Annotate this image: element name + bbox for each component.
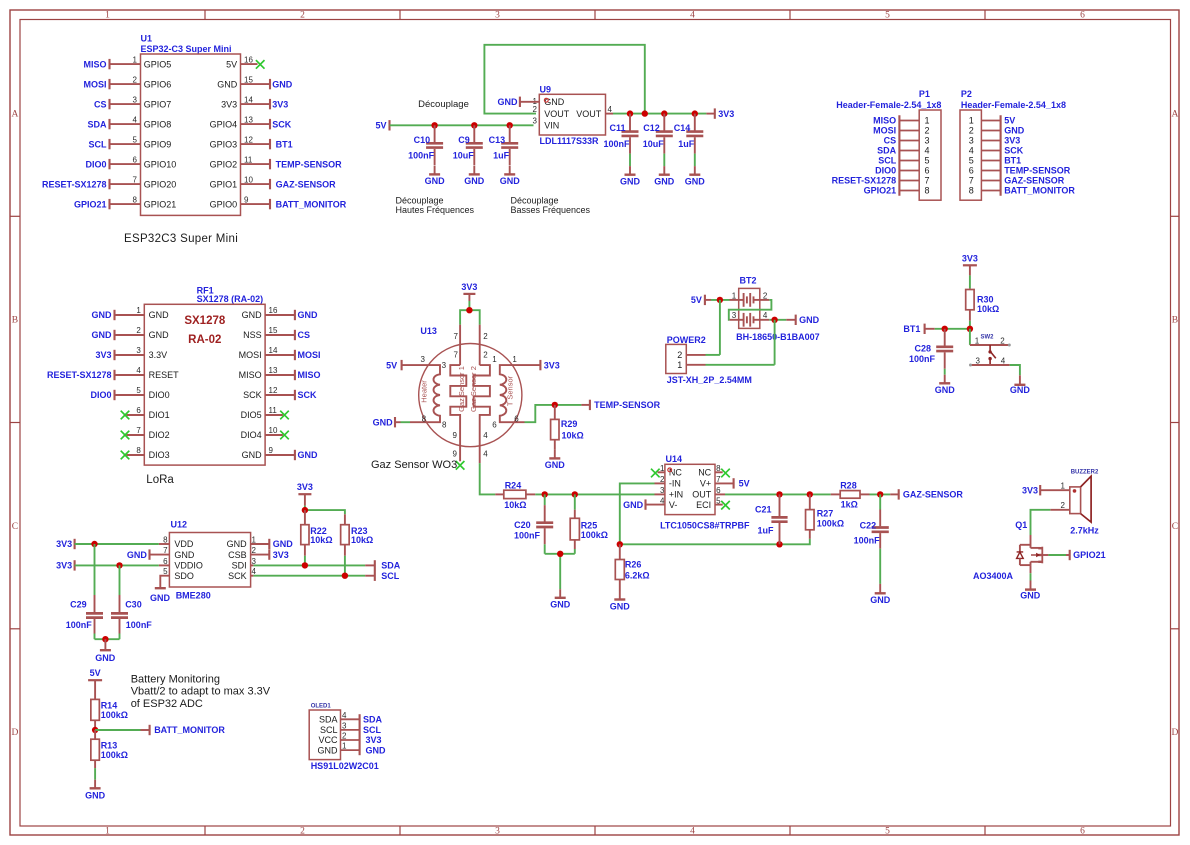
svg-text:VDDIO: VDDIO <box>174 561 203 571</box>
svg-text:GND: GND <box>464 176 485 186</box>
net label 3V3 (U13 pin 1) <box>540 360 559 370</box>
svg-text:100kΩ: 100kΩ <box>101 750 128 760</box>
svg-text:C21: C21 <box>755 505 772 515</box>
sensor U12 BME280 <box>150 520 270 601</box>
svg-text:GND: GND <box>273 539 294 549</box>
ground flag GND (C29/C30) <box>95 639 116 663</box>
svg-text:2: 2 <box>136 326 141 335</box>
svg-text:3: 3 <box>533 117 538 126</box>
svg-text:GND: GND <box>425 176 446 186</box>
svg-text:3V3: 3V3 <box>272 99 288 109</box>
svg-text:BT1: BT1 <box>276 139 293 149</box>
svg-text:Vbatt/2 to adapt to max 3.3V: Vbatt/2 to adapt to max 3.3V <box>131 686 271 698</box>
net label 5V (regulator input) <box>375 120 389 130</box>
svg-text:DIO5: DIO5 <box>241 410 262 420</box>
svg-text:6: 6 <box>1080 11 1085 21</box>
wire U9 output to 3V3 <box>613 113 706 115</box>
svg-text:R14: R14 <box>101 701 118 711</box>
svg-text:SCL: SCL <box>381 571 400 581</box>
svg-text:8: 8 <box>924 186 929 196</box>
svg-text:BUZZER2: BUZZER2 <box>1071 469 1099 475</box>
junction C9 tap <box>471 122 477 128</box>
net label CS (U1 pin 3) <box>94 99 110 109</box>
net label 3V3 (U12 pin 2) <box>269 549 288 559</box>
capacitor C12 10uF <box>643 114 675 187</box>
svg-text:U9: U9 <box>540 84 552 94</box>
svg-text:2: 2 <box>483 350 488 359</box>
svg-text:GND: GND <box>318 745 339 755</box>
svg-text:GND: GND <box>149 310 170 320</box>
svg-text:OUT: OUT <box>692 490 712 500</box>
svg-text:100nF: 100nF <box>909 354 936 364</box>
svg-text:BATT_MONITOR: BATT_MONITOR <box>1004 186 1075 196</box>
svg-text:V-: V- <box>669 500 678 510</box>
svg-text:SCK: SCK <box>298 390 318 400</box>
wire SW2 pin 4 to GND <box>1010 365 1020 375</box>
svg-text:1: 1 <box>975 336 980 345</box>
net label GND (U13 pin 8) <box>373 417 401 427</box>
wire SDA <box>253 564 365 566</box>
svg-text:+IN: +IN <box>669 490 683 500</box>
svg-text:GND: GND <box>85 791 106 801</box>
transistor Q1 AO3400A <box>973 520 1042 581</box>
svg-text:100kΩ: 100kΩ <box>817 519 844 529</box>
svg-text:BH-18650-B1BA007: BH-18650-B1BA007 <box>736 332 820 342</box>
svg-text:1uF: 1uF <box>678 139 695 149</box>
net label 3V3 (U12 VDD) <box>56 539 74 549</box>
svg-text:11: 11 <box>269 406 278 415</box>
wire BT1 node to SW2 pin 1 <box>969 329 971 345</box>
svg-text:100kΩ: 100kΩ <box>101 710 128 720</box>
svg-text:LDL1117S33R: LDL1117S33R <box>540 136 600 146</box>
svg-text:Header-Female-2.54_1x8: Header-Female-2.54_1x8 <box>836 100 941 110</box>
net label 3V3 (buzzer pin 1) <box>1022 485 1040 495</box>
svg-text:Q1: Q1 <box>1015 520 1027 530</box>
svg-text:SX1278 (RA-02): SX1278 (RA-02) <box>197 294 264 304</box>
svg-text:LTC1050CS8#TRPBF: LTC1050CS8#TRPBF <box>660 520 750 530</box>
svg-text:1: 1 <box>492 355 497 364</box>
svg-text:1: 1 <box>732 291 737 300</box>
svg-text:GND: GND <box>272 79 293 89</box>
svg-text:SCL: SCL <box>89 139 108 149</box>
svg-text:GPIO6: GPIO6 <box>144 79 172 89</box>
svg-text:3V3: 3V3 <box>366 735 382 745</box>
svg-text:GPIO2: GPIO2 <box>210 159 238 169</box>
svg-text:10kΩ: 10kΩ <box>977 304 999 314</box>
chip U1 ESP32-C3 Super Mini <box>110 34 271 216</box>
net label GND (RF1 pin 9) <box>295 450 318 460</box>
svg-text:4: 4 <box>133 115 138 124</box>
svg-text:SX1278: SX1278 <box>184 315 226 327</box>
svg-text:100nF: 100nF <box>603 139 630 149</box>
wire 3V3 to R22/R23 <box>304 506 306 511</box>
ground flag GND (R29) <box>545 450 566 470</box>
net label CS (RF1 pin 15) <box>295 330 310 340</box>
svg-text:SCK: SCK <box>1004 146 1024 156</box>
junction 5V/POWER2 <box>717 297 723 303</box>
svg-text:3: 3 <box>495 827 500 837</box>
svg-text:C29: C29 <box>70 600 87 610</box>
power flag 3V3 (pull-ups) <box>297 482 313 505</box>
svg-text:GND: GND <box>870 595 891 605</box>
svg-text:BATT_MONITOR: BATT_MONITOR <box>276 199 347 209</box>
net label GND (U9 pin 1) <box>498 97 520 107</box>
wire R30 to BT1 node <box>969 321 971 329</box>
svg-text:5V: 5V <box>691 295 702 305</box>
svg-text:MOSI: MOSI <box>873 126 896 136</box>
svg-text:8: 8 <box>442 421 447 430</box>
svg-text:1kΩ: 1kΩ <box>841 500 858 510</box>
svg-text:SCK: SCK <box>228 571 247 581</box>
net label RESET-SX1278 (U1 pin 7) <box>42 179 110 189</box>
svg-text:GND: GND <box>1004 126 1024 136</box>
svg-text:GPIO4: GPIO4 <box>210 119 238 129</box>
no-connect RF1 pin 10 <box>280 431 289 440</box>
junction C29/C30 GND <box>102 636 108 642</box>
svg-text:14: 14 <box>244 95 253 104</box>
svg-text:C28: C28 <box>914 343 931 353</box>
junction C13 tap <box>507 122 513 128</box>
net label 5V (U13 pin 3) <box>386 360 402 370</box>
net label GND (U14 pin 4) <box>623 499 645 509</box>
svg-text:MISO: MISO <box>873 116 896 126</box>
svg-text:GND: GND <box>550 600 571 610</box>
net label GND (BT2 pin 4) <box>796 315 820 325</box>
svg-text:4: 4 <box>1001 356 1006 365</box>
junction R26 tap <box>617 541 623 547</box>
resistor R22 10k <box>301 510 333 556</box>
svg-text:GND: GND <box>150 593 171 603</box>
wire 3V3 flag to U13 pins 7/2 <box>468 301 470 310</box>
net label SCK (RF1 pin 12) <box>295 390 317 400</box>
net label GND (U12 pin 1) <box>269 539 293 549</box>
svg-text:5V: 5V <box>1004 116 1015 126</box>
svg-text:SDO: SDO <box>174 571 194 581</box>
svg-text:4: 4 <box>483 450 488 459</box>
svg-text:GPIO3: GPIO3 <box>210 139 238 149</box>
junction C21 bottom <box>776 541 782 547</box>
svg-text:3: 3 <box>495 11 500 21</box>
wire POWER2 pin 1 <box>706 364 775 366</box>
svg-text:GND: GND <box>685 177 706 187</box>
svg-text:GND: GND <box>373 417 394 427</box>
svg-text:C22: C22 <box>860 520 877 530</box>
junction R22 top <box>302 507 308 513</box>
svg-text:14: 14 <box>269 346 278 355</box>
wire R22 to SDA <box>304 556 306 566</box>
svg-text:TEMP-SENSOR: TEMP-SENSOR <box>1004 166 1071 176</box>
capacitor C14 1uF <box>674 114 706 187</box>
svg-text:5V: 5V <box>90 668 101 678</box>
net label GND (RF1 pin 1) <box>92 310 115 320</box>
net label GND (U1 pin 15) <box>270 79 293 89</box>
wire U13 pin 4 to R24 <box>480 463 496 494</box>
wire 5V to BT2 pin 1 <box>711 299 730 301</box>
no-connect U14 pin 1 <box>651 469 660 478</box>
svg-text:2: 2 <box>969 126 974 136</box>
svg-text:100nF: 100nF <box>126 620 153 630</box>
wire R23 to SCL <box>344 556 346 576</box>
svg-text:2: 2 <box>342 732 347 741</box>
svg-text:3: 3 <box>732 311 737 320</box>
wire Q1 gate to GPIO21 <box>1042 554 1048 556</box>
svg-text:DIO0: DIO0 <box>149 390 170 400</box>
switch SW2 <box>969 335 1011 367</box>
svg-text:1uF: 1uF <box>493 151 510 161</box>
no-connect RF1 pin 8 <box>121 451 130 460</box>
svg-text:-IN: -IN <box>669 479 681 489</box>
display connector OLED1 HS91L02W2C01 <box>309 704 379 772</box>
svg-text:B: B <box>1172 316 1178 326</box>
svg-text:R29: R29 <box>561 419 578 429</box>
svg-text:Gaz Sensor 2: Gaz Sensor 2 <box>469 366 478 412</box>
net label MISO (RF1 pin 13) <box>295 370 321 380</box>
svg-text:7: 7 <box>969 176 974 186</box>
net label GND (U12 pin 7) <box>127 549 150 559</box>
net label TEMP-SENSOR <box>590 400 661 410</box>
svg-text:of ESP32 ADC: of ESP32 ADC <box>131 698 203 710</box>
net label 3V3 (regulator output) <box>715 108 734 118</box>
svg-text:1: 1 <box>512 355 517 364</box>
svg-text:GAZ-SENSOR: GAZ-SENSOR <box>276 179 337 189</box>
net label MOSI (U1 pin 2) <box>83 79 109 89</box>
junction C20/R25 <box>557 551 563 557</box>
svg-text:D: D <box>1171 728 1178 738</box>
svg-text:5V: 5V <box>226 59 237 69</box>
wire R28 to GAZ-SENSOR <box>870 493 891 495</box>
svg-text:6: 6 <box>969 166 974 176</box>
wire R13 to GND <box>94 768 96 780</box>
svg-text:6: 6 <box>924 166 929 176</box>
svg-text:GPIO21: GPIO21 <box>1073 550 1106 560</box>
svg-text:3V3: 3V3 <box>718 109 734 119</box>
svg-text:10uF: 10uF <box>643 139 665 149</box>
svg-text:SDA: SDA <box>319 715 338 725</box>
svg-text:GPIO21: GPIO21 <box>864 186 897 196</box>
svg-text:9: 9 <box>269 446 274 455</box>
svg-text:R27: R27 <box>817 509 834 519</box>
svg-text:HS91L02W2C01: HS91L02W2C01 <box>311 761 379 771</box>
no-connect U13 pin 9 <box>456 461 465 470</box>
junction GND/POWER2 <box>771 317 777 323</box>
capacitor C20 100nF <box>514 494 553 553</box>
junction C11 tap <box>627 110 633 116</box>
net label BT1 (U1 pin 12) <box>270 139 293 149</box>
svg-text:NC: NC <box>698 468 711 478</box>
capacitor C11 100nF <box>603 114 640 187</box>
svg-text:1uF: 1uF <box>757 526 774 536</box>
svg-text:RESET: RESET <box>149 370 180 380</box>
svg-text:7: 7 <box>924 176 929 186</box>
wire BT1 node <box>935 328 970 330</box>
svg-text:10: 10 <box>269 426 278 435</box>
svg-text:GPIO5: GPIO5 <box>144 59 172 69</box>
svg-text:VCC: VCC <box>318 735 338 745</box>
wire to BATT_MONITOR <box>95 729 140 731</box>
svg-text:SCL: SCL <box>878 156 897 166</box>
svg-text:Gaz Sensor 1: Gaz Sensor 1 <box>457 366 466 412</box>
svg-text:RESET-SX1278: RESET-SX1278 <box>832 176 897 186</box>
svg-text:ESP32C3 Super Mini: ESP32C3 Super Mini <box>124 233 238 245</box>
svg-text:DIO4: DIO4 <box>241 430 262 440</box>
svg-text:2: 2 <box>300 11 305 21</box>
svg-text:1: 1 <box>133 55 138 64</box>
wire C20/R25 common to GND <box>545 553 575 555</box>
svg-text:8: 8 <box>133 195 138 204</box>
net label ticks OLED1 <box>359 714 361 755</box>
net label 3V3 (U12 VDDIO) <box>56 560 74 570</box>
resistor R29 10k <box>551 405 584 450</box>
net label TEMP-SENSOR (U1 pin 11) <box>270 159 342 169</box>
svg-text:GPIO10: GPIO10 <box>144 159 177 169</box>
svg-text:SDA: SDA <box>363 715 383 725</box>
svg-text:BT1: BT1 <box>903 324 920 334</box>
svg-text:6: 6 <box>133 155 138 164</box>
no-connect RF1 pin 6 <box>121 411 130 420</box>
svg-text:GND: GND <box>366 745 387 755</box>
svg-text:GPIO21: GPIO21 <box>74 199 107 209</box>
svg-text:B: B <box>12 316 18 326</box>
svg-text:10uF: 10uF <box>453 151 475 161</box>
svg-text:GND: GND <box>1020 591 1041 601</box>
svg-text:3V3: 3V3 <box>221 99 237 109</box>
svg-text:C20: C20 <box>514 520 531 530</box>
svg-text:VOUT: VOUT <box>544 109 570 119</box>
svg-text:3: 3 <box>136 346 141 355</box>
net label SCL <box>375 571 400 581</box>
junction C20 tap <box>542 491 548 497</box>
capacitor C29 100nF <box>66 544 103 639</box>
svg-text:1: 1 <box>969 116 974 126</box>
svg-text:13: 13 <box>269 366 278 375</box>
svg-text:VOUT: VOUT <box>576 109 602 119</box>
net label ticks P1 <box>898 115 900 195</box>
svg-text:8: 8 <box>136 446 141 455</box>
svg-text:100nF: 100nF <box>66 620 93 630</box>
svg-text:U1: U1 <box>141 34 153 44</box>
connector POWER2 JST-XH_2P_2.54MM <box>666 335 752 385</box>
svg-text:3: 3 <box>969 136 974 146</box>
svg-text:3: 3 <box>975 356 980 365</box>
svg-text:GND: GND <box>242 450 263 460</box>
svg-text:LoRa: LoRa <box>146 474 174 486</box>
net label SDA <box>375 560 401 570</box>
svg-text:SDA: SDA <box>877 146 897 156</box>
junction R29 tap <box>552 402 558 408</box>
junction 3V3/U13 <box>466 307 472 313</box>
svg-text:TEMP-SENSOR: TEMP-SENSOR <box>594 400 661 410</box>
svg-text:U14: U14 <box>666 454 683 464</box>
svg-text:MISO: MISO <box>239 370 262 380</box>
svg-text:4: 4 <box>136 366 141 375</box>
net label BT1 <box>903 324 934 334</box>
svg-text:R26: R26 <box>625 560 642 570</box>
svg-text:MOSI: MOSI <box>83 79 106 89</box>
svg-text:1: 1 <box>677 360 682 370</box>
wire SCL <box>253 575 365 577</box>
svg-text:GND: GND <box>298 450 319 460</box>
net label DIO0 (RF1 pin 5) <box>90 390 114 400</box>
svg-text:U12: U12 <box>171 520 188 530</box>
capacitor C10 100nF <box>408 125 445 186</box>
svg-text:GND: GND <box>92 310 113 320</box>
net label ticks P2 <box>1000 115 1002 195</box>
wire buzzer pin 2 to Q1 drain <box>1031 510 1051 535</box>
svg-text:2: 2 <box>1061 501 1066 510</box>
sensor U13 Gaz Sensor WO3 <box>402 325 541 463</box>
svg-text:7: 7 <box>133 175 138 184</box>
svg-text:5: 5 <box>924 156 929 166</box>
svg-text:13: 13 <box>244 115 253 124</box>
svg-text:ESP32-C3 Super Mini: ESP32-C3 Super Mini <box>141 44 232 54</box>
connector P2 Header-Female-2.54_1x8 <box>960 89 1066 200</box>
svg-text:11: 11 <box>244 155 253 164</box>
svg-text:P2: P2 <box>961 89 972 99</box>
svg-text:GAZ-SENSOR: GAZ-SENSOR <box>903 490 964 500</box>
svg-text:RA-02: RA-02 <box>188 334 221 346</box>
regulator U9 LDL1117S33R <box>520 84 613 146</box>
svg-text:RESET-SX1278: RESET-SX1278 <box>42 179 107 189</box>
junction SCL/R23 <box>342 573 348 579</box>
svg-text:CS: CS <box>884 136 897 146</box>
net label GPIO21 <box>1070 550 1106 560</box>
svg-text:Gaz Sensor WO3: Gaz Sensor WO3 <box>371 459 457 471</box>
svg-text:3V3: 3V3 <box>962 253 978 263</box>
svg-text:9: 9 <box>244 195 249 204</box>
wire 5V to U9 VIN <box>390 124 534 126</box>
svg-text:MOSI: MOSI <box>298 350 321 360</box>
svg-text:Basses Fréquences: Basses Fréquences <box>511 205 591 215</box>
svg-text:C30: C30 <box>125 600 142 610</box>
net label SCL (U1 pin 5) <box>89 139 110 149</box>
svg-text:VDD: VDD <box>174 539 194 549</box>
wire U14 -IN feedback <box>620 483 810 544</box>
wire C29/C30 common <box>95 638 120 640</box>
svg-text:2: 2 <box>763 291 768 300</box>
svg-text:GND: GND <box>298 310 319 320</box>
junction SDA/R22 <box>302 562 308 568</box>
svg-text:6.2kΩ: 6.2kΩ <box>625 571 650 581</box>
wire U14 OUT <box>725 493 831 495</box>
op-amp U14 LTC1050CS8#TRPBF <box>646 454 750 531</box>
svg-text:1: 1 <box>342 742 347 751</box>
svg-text:C13: C13 <box>489 135 506 145</box>
svg-text:U13: U13 <box>420 326 437 336</box>
svg-text:6: 6 <box>492 421 497 430</box>
svg-text:5V: 5V <box>375 121 386 131</box>
svg-text:3V3: 3V3 <box>56 539 72 549</box>
power flag 3V3 (R30) <box>962 253 978 275</box>
svg-text:4: 4 <box>690 827 695 837</box>
svg-text:A: A <box>1171 109 1178 119</box>
net label 3V3 (U1 pin 14) <box>270 99 288 109</box>
resistor R14 100k <box>91 680 128 730</box>
svg-text:3V3: 3V3 <box>1022 485 1038 495</box>
svg-text:10kΩ: 10kΩ <box>504 500 526 510</box>
net label BATT_MONITOR <box>150 725 226 735</box>
svg-text:R13: R13 <box>101 740 118 750</box>
svg-text:VIN: VIN <box>544 121 559 131</box>
svg-text:3V3: 3V3 <box>544 360 560 370</box>
svg-text:16: 16 <box>269 306 278 315</box>
svg-text:Découplage: Découplage <box>418 99 469 110</box>
svg-text:4: 4 <box>690 11 695 21</box>
junction BATT_MONITOR tap <box>92 727 98 733</box>
svg-text:10: 10 <box>244 175 253 184</box>
svg-text:7: 7 <box>136 426 141 435</box>
wire 3V3 to R30 <box>969 275 971 288</box>
svg-text:1: 1 <box>136 306 141 315</box>
